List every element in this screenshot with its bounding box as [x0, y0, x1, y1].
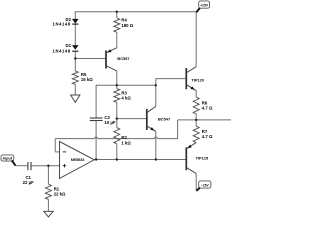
wire R4 to BC557 emitter — [116, 32, 118, 48]
resistor R2 1 kohm — [114, 128, 132, 146]
junction R3/R2/BC547 base (node B) — [116, 117, 118, 119]
transistor Q4 TIP125 (PNP) — [186, 143, 209, 174]
transistor Q3 TIP120 (NPN) — [186, 67, 204, 91]
wire BC557 collector riser — [116, 71, 118, 86]
svg-text:180 Ω: 180 Ω — [121, 23, 133, 28]
wire inverting input wrap vertical — [54, 139, 56, 152]
wire inverting input stub — [55, 151, 59, 153]
wire R1 top drop — [47, 166, 49, 185]
wire drive bus — [96, 84, 156, 86]
svg-text:BC557: BC557 — [117, 56, 129, 61]
capacitor C2 10uF — [90, 115, 116, 125]
wire C1 to noninverting input — [31, 165, 59, 167]
junction R1 / noninverting input — [47, 165, 49, 167]
resistor R6 4.7 ohm — [193, 97, 213, 114]
svg-text:10 µF: 10 µF — [104, 120, 115, 125]
-15V supply flag — [196, 181, 211, 191]
wire C2 rail upper — [95, 85, 97, 118]
svg-text:BC547: BC547 — [158, 117, 170, 122]
wire speaker output line — [178, 119, 231, 121]
wire R1 to ground — [47, 199, 49, 211]
wire C2 rail lower — [95, 121, 97, 160]
wire TIP120 emitter to R6 — [195, 91, 197, 98]
wire R6 to output node — [195, 114, 197, 120]
wire feedback from output to inverting input — [55, 137, 177, 138]
resistor R3 4 kohm — [114, 89, 132, 103]
transistor Q2 BC547 (NPN) — [147, 106, 170, 131]
resistor R4 180 ohm — [114, 18, 134, 33]
op-amp U1 NE5534 — [60, 142, 95, 179]
svg-text:4 kΩ: 4 kΩ — [121, 95, 131, 100]
svg-text:4.7 Ω: 4.7 Ω — [202, 106, 213, 111]
+15V supply flag — [196, 1, 209, 12]
ground (R5) — [71, 95, 80, 102]
junction output node (R6/R7) — [195, 119, 197, 121]
svg-text:D1: D1 — [66, 43, 72, 48]
ground (R1) — [44, 211, 53, 217]
svg-text:1N4148: 1N4148 — [53, 21, 71, 26]
wire R3-R2 link — [116, 102, 118, 127]
junction R2 bottom / output bus — [116, 158, 118, 160]
diode D2 1N4148 — [53, 17, 79, 27]
junction drive bus / BC557 collector / R3 — [116, 84, 118, 86]
capacitor C1 22uF — [23, 162, 34, 185]
svg-text:22 kΩ: 22 kΩ — [54, 191, 66, 196]
resistor R1 22 kohm — [45, 184, 66, 199]
svg-text:22 µF: 22 µF — [23, 180, 34, 185]
Input terminal flag — [1, 155, 16, 166]
junction drive bus / TIP120 base riser — [155, 84, 157, 86]
wire output bus — [94, 159, 186, 161]
svg-text:TIP125: TIP125 — [196, 156, 209, 161]
svg-text:1 kΩ: 1 kΩ — [121, 140, 131, 145]
svg-text:4.7 Ω: 4.7 Ω — [202, 134, 213, 139]
wire output node to R7 — [195, 120, 197, 126]
svg-text:Input: Input — [3, 157, 13, 161]
svg-text:1N4148: 1N4148 — [53, 49, 71, 54]
wire BC547 emitter riser — [155, 131, 157, 159]
wire R4 top stub — [116, 12, 118, 18]
junction R4/top rail — [116, 11, 118, 13]
wire top +15V rail — [75, 11, 196, 13]
resistor R7 4.7 ohm — [193, 126, 213, 142]
svg-text:NE5534: NE5534 — [71, 157, 85, 162]
wire R5 to ground — [74, 84, 76, 95]
svg-text:15 kΩ: 15 kΩ — [81, 77, 93, 82]
wire BC557 base — [75, 58, 106, 60]
wire D2-D1 link — [74, 24, 76, 45]
resistor R5 15 kohm — [72, 71, 93, 84]
wire D1 cathode to node A — [74, 52, 76, 72]
wire BC547 base — [117, 118, 147, 120]
wire R2 bottom drop — [116, 144, 118, 160]
wire output corner drop — [177, 120, 179, 139]
wire input to C1 — [15, 165, 27, 167]
svg-text:TIP120: TIP120 — [191, 77, 204, 82]
wire TIP120 collector riser — [195, 12, 197, 67]
junction op-amp output / C2 rail — [95, 158, 97, 160]
diode D1 1N4148 — [53, 43, 79, 54]
wire TIP120 base riser — [155, 79, 157, 107]
wire R3 top stub — [116, 85, 118, 88]
wire D2 anode drop — [74, 11, 76, 19]
svg-text:+15V: +15V — [200, 3, 209, 7]
junction node A (D1/R5/BC557 base) — [74, 57, 76, 59]
junction BC547 emitter / TIP125 base — [155, 158, 157, 160]
wire TIP120 base — [156, 78, 187, 80]
svg-text:−15V: −15V — [201, 183, 210, 187]
transistor Q1 BC557 (PNP) — [106, 48, 130, 71]
wire TIP125 collector drop — [195, 174, 197, 191]
